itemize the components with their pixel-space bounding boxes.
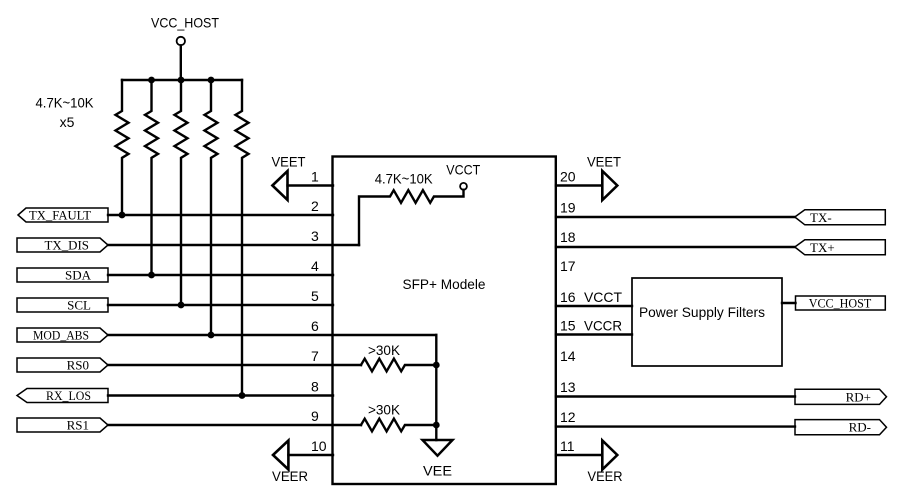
port SCL [17, 298, 108, 313]
svg-text:>30K: >30K [368, 402, 401, 418]
svg-text:6: 6 [311, 318, 319, 334]
svg-text:19: 19 [560, 200, 576, 216]
junction rail col2 [148, 77, 155, 84]
svg-text:VEE: VEE [423, 463, 452, 479]
svg-text:7: 7 [311, 348, 319, 364]
port TX_DIS [17, 238, 108, 253]
svg-text:VCCT: VCCT [446, 162, 480, 178]
wire TX_DIS to pin3 and into module [108, 244, 359, 246]
svg-text:13: 13 [560, 379, 576, 395]
junction RS0 resistor / VEE column [433, 362, 440, 369]
resistor 4.7K~10K (TX_DIS pull-up to VCCT) [359, 170, 464, 245]
svg-text:TX_FAULT: TX_FAULT [29, 208, 91, 223]
svg-text:SFP+ Modele: SFP+ Modele [403, 276, 486, 292]
wire pin10 to VEER arrow [288, 454, 333, 456]
port MOD_ABS [17, 328, 108, 343]
wire pin20 to VEET arrow [556, 184, 602, 186]
wire VCC_HOST terminal to rail [180, 45, 182, 80]
wire SDA to pin4 [108, 274, 333, 276]
resistor pull-up 5 (to RX_LOS) [236, 80, 249, 396]
svg-text:VEET: VEET [587, 154, 621, 170]
svg-text:VCC_HOST: VCC_HOST [809, 296, 872, 311]
svg-text:x5: x5 [60, 114, 75, 130]
port TX- [795, 210, 886, 225]
svg-text:2: 2 [311, 198, 319, 214]
svg-text:MOD_ABS: MOD_ABS [33, 328, 89, 343]
power flag VEET (pin 20, right) [587, 154, 621, 201]
svg-text:9: 9 [311, 408, 319, 424]
svg-text:20: 20 [560, 169, 576, 185]
svg-text:8: 8 [311, 379, 319, 395]
wire SCL to pin5 [108, 304, 333, 306]
svg-text:RS0: RS0 [67, 358, 89, 373]
wire pin16 to power filter box [556, 305, 632, 307]
svg-text:14: 14 [560, 348, 576, 364]
resistor pull-up 4 (to MOD_ABS) [205, 80, 218, 335]
svg-text:3: 3 [311, 228, 319, 244]
svg-text:18: 18 [560, 229, 576, 245]
SFP+ module body U1 [333, 157, 556, 485]
svg-text:4: 4 [311, 258, 319, 274]
wire RS1 to pin9 and resistor [108, 424, 361, 426]
svg-text:VCCR: VCCR [584, 318, 622, 334]
junction RS1 resistor / VEE column [433, 422, 440, 429]
svg-text:5: 5 [311, 288, 319, 304]
svg-text:RX_LOS: RX_LOS [46, 388, 91, 403]
svg-text:10: 10 [311, 438, 327, 454]
svg-text:VEER: VEER [272, 468, 308, 484]
junction SDA / pull-up 2 [148, 272, 155, 279]
wire power filter box to VCC_HOST port [782, 302, 796, 304]
svg-text:VCC_HOST: VCC_HOST [151, 15, 219, 31]
svg-text:VEET: VEET [272, 154, 306, 170]
junction RX_LOS / pull-up 5 [239, 392, 246, 399]
svg-text:11: 11 [560, 438, 575, 454]
wire RX_LOS to pin8 [108, 394, 333, 396]
wire pin19 to TX- port [556, 216, 795, 218]
port TX+ [795, 240, 886, 255]
junction rail col3 [178, 77, 185, 84]
junction MOD_ABS / pull-up 4 [208, 332, 215, 339]
svg-text:15: 15 [560, 318, 576, 334]
wire pin12 to RD- port [556, 425, 795, 427]
svg-text:RD-: RD- [849, 420, 871, 435]
resistor pull-up 2 (to SDA) [145, 80, 158, 275]
wire top rail [122, 79, 242, 81]
junction rail col4 [208, 77, 215, 84]
svg-text:16: 16 [560, 289, 576, 305]
wire pin1 to VEET arrow [288, 184, 334, 186]
wire pin15 to power filter box [556, 333, 632, 335]
port RX_LOS [17, 388, 108, 403]
port RS1 [17, 418, 108, 433]
port SDA [17, 268, 108, 283]
svg-text:4.7K~10K: 4.7K~10K [36, 95, 95, 111]
svg-text:VEER: VEER [588, 468, 623, 484]
svg-text:TX+: TX+ [810, 240, 835, 255]
svg-text:Power Supply Filters: Power Supply Filters [639, 304, 765, 320]
port RS0 [17, 358, 108, 373]
svg-text:12: 12 [560, 409, 576, 425]
power flag VEER (pin 11, right) [588, 441, 623, 485]
svg-text:SCL: SCL [67, 298, 91, 313]
svg-text:SDA: SDA [65, 268, 92, 283]
svg-text:VCCT: VCCT [584, 289, 622, 305]
ground VEE [423, 440, 453, 479]
port RD+ [795, 389, 887, 404]
resistor pull-up 3 (to SCL) [175, 80, 188, 305]
VCC_HOST terminal circle [177, 37, 185, 45]
power flag VEER (pin 10, left) [272, 441, 308, 485]
port TX_FAULT [18, 208, 108, 223]
svg-text:1: 1 [311, 169, 319, 185]
junction TX_FAULT / pull-up 1 [119, 212, 126, 219]
resistor >30K (RS0 pull-down) [361, 342, 436, 371]
wire MOD_ABS to pin6 and into module to VEE column [108, 334, 436, 336]
port VCC_HOST (right) [796, 296, 886, 311]
power supply filter box U2 [632, 278, 782, 366]
VCCT terminal circle [460, 183, 467, 190]
junction SCL / pull-up 3 [178, 302, 185, 309]
port RD- [795, 420, 887, 435]
svg-text:RS1: RS1 [67, 418, 89, 433]
wire RS0 to pin7 and resistor [108, 364, 361, 366]
svg-text:TX-: TX- [810, 210, 832, 225]
svg-text:17: 17 [560, 258, 576, 274]
resistor >30K (RS1 pull-down) [361, 402, 436, 432]
svg-text:RD+: RD+ [846, 389, 871, 404]
wire VEE column (pin6 net down to ground) [435, 335, 437, 440]
wire pin18 to TX+ port [556, 246, 795, 248]
wire pin13 to RD+ port [556, 395, 795, 397]
resistor pull-up 1 (to TX_FAULT) [116, 80, 129, 215]
power flag VEET (pin 1, left) [272, 154, 306, 201]
svg-text:4.7K~10K: 4.7K~10K [375, 170, 434, 186]
wire pin11 to VEER arrow [556, 454, 602, 456]
svg-text:>30K: >30K [368, 342, 401, 358]
wire TX_FAULT to pin2 [108, 214, 333, 216]
svg-text:TX_DIS: TX_DIS [45, 238, 90, 253]
